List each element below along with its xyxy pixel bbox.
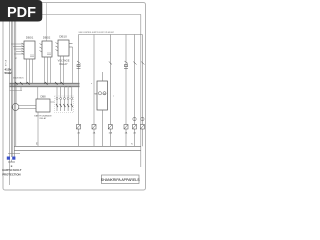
control supply rail	[79, 34, 143, 36]
wire feeding relay DB02 from sheet top	[46, 3, 48, 41]
voltage relay U3 body	[58, 40, 69, 56]
wires relay U2 to bus	[45, 57, 51, 83]
bus junction slashes	[15, 82, 64, 85]
control branch wire 4	[125, 35, 127, 147]
relay U1 internal pin marks	[30, 55, 34, 57]
terminal fuse F5	[133, 125, 137, 130]
wire ELR to MCB group	[50, 101, 55, 103]
coil box bottom wire	[101, 110, 103, 146]
earth wire from ELR to bottom bus	[37, 112, 39, 146]
fuse rating labels	[77, 132, 136, 135]
svg-text:DB10: DB10	[59, 35, 67, 39]
left neutral riser N	[15, 15, 17, 146]
control branch wire 6	[141, 35, 143, 147]
relay U1 body	[24, 41, 35, 59]
svg-text:DB02: DB02	[43, 36, 51, 40]
coil K1a	[98, 92, 101, 95]
pushbutton PB1 on branch 1	[77, 61, 81, 69]
control branch wire 1	[78, 35, 80, 147]
svg-text:RELAY: RELAY	[40, 117, 47, 120]
bus drop wires to bottom components	[16, 87, 72, 104]
selection handle blue right	[12, 157, 15, 160]
short neutral link below bus	[10, 90, 23, 92]
MCB group dashed enclosure	[55, 96, 74, 113]
control branch wire 2	[93, 35, 95, 147]
PDF badge	[0, 0, 42, 22]
wire bus to ELR top	[37, 87, 39, 99]
svg-text:OM: OM	[103, 94, 107, 96]
control branch wire 5	[134, 35, 136, 147]
horizontal distribution bus line 2	[10, 84, 80, 86]
short link at left of bottom bus	[8, 153, 20, 155]
svg-text:50HZ: 50HZ	[5, 71, 13, 75]
ground bar	[8, 161, 15, 163]
bottom neutral bus line 1	[14, 145, 141, 147]
ground dot	[11, 166, 12, 167]
svg-text:SHANKRIPA APPARELS: SHANKRIPA APPARELS	[101, 178, 140, 182]
left phase bus riser R	[10, 15, 12, 157]
selection handle blue left	[7, 157, 10, 160]
indicator circle on branch 5	[133, 117, 136, 120]
ground stem	[11, 160, 13, 163]
horizontal distribution bus line 3	[10, 86, 80, 88]
page background	[0, 0, 149, 198]
earth leakage relay body	[36, 99, 50, 112]
card frame border	[3, 3, 146, 191]
wires bus to relay DB01 pins	[11, 44, 24, 54]
relay U2 internal pin marks	[47, 53, 51, 55]
left margin phase labels R Y B	[5, 61, 7, 68]
MCB coil marks	[56, 104, 73, 107]
terminal fuse F4	[124, 125, 128, 130]
CT secondary wires to ELR	[19, 105, 36, 107]
bus junction dots	[16, 83, 71, 87]
terminal fuse F1	[77, 125, 81, 130]
terminal fuse F6	[140, 125, 144, 130]
schematic frame right border	[140, 15, 142, 168]
relay U1 pin ticks	[22, 43, 25, 55]
MCB poles	[56, 98, 73, 112]
left phase bus riser Y	[12, 15, 14, 157]
schematic frame left border	[9, 15, 11, 186]
control branch wire 3	[109, 35, 111, 147]
title block box	[102, 175, 140, 184]
svg-text:DB8: DB8	[40, 95, 46, 99]
wires voltage relay to bus	[61, 47, 73, 83]
voltage relay U3 left pin ticks	[56, 43, 59, 52]
svg-text:DB01: DB01	[26, 36, 34, 40]
contact slash on branch 6	[141, 62, 144, 65]
wires relay U1 to bus	[27, 59, 33, 83]
relay U2 pin ticks	[40, 44, 43, 53]
horizontal distribution bus line 1	[10, 82, 80, 84]
contact slash on branch 3	[109, 62, 112, 65]
svg-text:v: v	[113, 96, 114, 98]
pushbutton PB2 on branch 4	[124, 61, 128, 69]
relay U2 body	[42, 41, 52, 57]
svg-text:PROTECTION: PROTECTION	[2, 172, 20, 176]
svg-text:MAIN BUS: MAIN BUS	[13, 77, 24, 80]
terminal fuse F3	[108, 125, 112, 130]
voltage relay U3 right pin stubs	[69, 44, 73, 48]
terminal fuse F2	[92, 125, 96, 130]
schematic frame top border	[10, 14, 142, 16]
coil box top wire	[101, 72, 103, 81]
svg-text:240V CONTROL SUPPLY FOR TOP GR: 240V CONTROL SUPPLY FOR TOP GROUP	[79, 32, 115, 34]
coil K1b	[103, 92, 106, 95]
bottom neutral bus line 2	[14, 149, 141, 151]
svg-text:PDF: PDF	[7, 5, 36, 21]
left phase bus riser B	[13, 15, 15, 157]
indicator circle on branch 6	[141, 117, 144, 120]
CT circle	[12, 104, 19, 111]
contactor coil box K1	[97, 81, 108, 110]
contact slash on branch 5	[133, 62, 136, 65]
